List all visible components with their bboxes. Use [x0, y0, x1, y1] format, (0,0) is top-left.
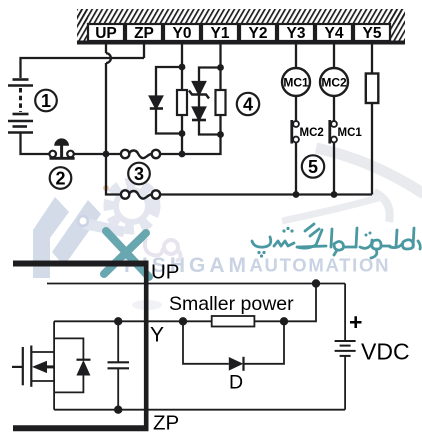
wire Y3 coil to contact [295, 96, 297, 121]
node Y0 row1 [179, 151, 186, 158]
circled number 5 [302, 155, 324, 177]
svg-text:Y5: Y5 [363, 25, 382, 42]
Y0 snubber left branch with diode [156, 67, 182, 97]
svg-text:Y1: Y1 [211, 25, 230, 42]
node Y-load left [179, 317, 187, 325]
wire Y1 column lower [219, 115, 221, 135]
watermark logo gear [109, 183, 155, 229]
terminal box ZP [126, 24, 162, 42]
svg-text:UP: UP [151, 261, 179, 284]
node ZP-cap [114, 406, 122, 414]
wire Y0 column [181, 44, 183, 90]
svg-text:ZP: ZP [153, 412, 179, 435]
contactor coil MC2 [320, 68, 348, 96]
terminal box Y2 [240, 24, 276, 42]
resistor on Y5 [366, 74, 379, 104]
diode D loop [183, 321, 229, 364]
interlock contact MC2 [292, 120, 299, 144]
terminal box Y0 [164, 24, 200, 42]
interlock contact MC1 [330, 120, 337, 144]
battery VDC [344, 284, 346, 341]
wire UP column lower [106, 63, 121, 195]
wire Y3 contact to bottom row [295, 142, 297, 194]
PLC case outline thick frame [13, 261, 149, 432]
svg-text:5: 5 [308, 157, 318, 177]
terminal box Y3 [278, 24, 314, 42]
terminal box Y1 [202, 24, 238, 42]
wire Y4 contact to bottom row [333, 142, 335, 194]
svg-text:UP: UP [95, 25, 117, 42]
wire UP rail [47, 283, 345, 285]
wire Y0 column lower [181, 115, 183, 154]
watermark teal X mark [104, 231, 149, 277]
svg-text:2: 2 [55, 169, 65, 189]
svg-text:+: + [349, 309, 362, 335]
node Y3 bottom row [293, 191, 300, 198]
battery 1 plates [8, 80, 33, 133]
node Y0 top [179, 64, 186, 71]
terminal box Y5 [354, 24, 390, 42]
svg-text:3: 3 [134, 164, 144, 184]
wire Y rail left [54, 320, 212, 322]
node junction UP-button [103, 151, 110, 158]
svg-text:Y2: Y2 [249, 25, 268, 42]
transistor Q1 mosfet [12, 346, 54, 387]
circled number 2 [50, 167, 72, 189]
fuse 3 row1 [121, 150, 160, 158]
capacitor C1 [117, 321, 119, 362]
zener diode on Y1 branch [193, 82, 205, 94]
svg-text:MC1: MC1 [283, 76, 309, 90]
watermark logo small circle [78, 216, 88, 226]
svg-text:ZP: ZP [134, 25, 154, 42]
wire Y4 coil to contact [333, 96, 335, 121]
diode on Y0 branch [150, 97, 162, 109]
wire hop over ZP-battery line [106, 53, 111, 63]
wire fuse1 to Y0 node [160, 153, 182, 155]
watermark faint large glyphs [145, 238, 181, 261]
wire bottom row [160, 193, 372, 195]
svg-text:Y4: Y4 [325, 25, 344, 42]
diode D [229, 357, 244, 371]
svg-text:MC2: MC2 [321, 76, 347, 90]
wire Y5 column lower [371, 103, 373, 195]
circled number 4 [237, 93, 259, 115]
wire ZP rail [54, 409, 345, 411]
wire Y3 column upper [295, 44, 297, 68]
contactor coil MC1 [282, 68, 310, 96]
node UP-load [312, 279, 320, 287]
Y1 snubber branch with zener+diode [199, 68, 221, 83]
svg-text:VDC: VDC [361, 339, 410, 365]
node Y0 bottom [179, 130, 186, 137]
terminal box UP [88, 24, 124, 42]
node Y1 top [217, 64, 224, 71]
transistor main bus [53, 321, 55, 409]
terminal strip bottom border [77, 41, 405, 45]
watermark persian text (approximated strokes) [252, 224, 420, 258]
terminal strip hatched bar [77, 9, 405, 25]
diode on Y1 branch [193, 108, 205, 120]
circled number 1 [35, 90, 57, 112]
svg-text:Y: Y [150, 324, 164, 347]
node Y1 bottom [217, 131, 224, 138]
pushbutton 2 [49, 138, 74, 158]
body diode branch [54, 338, 83, 359]
svg-text:D: D [229, 372, 243, 394]
wire Y1 column [219, 44, 221, 90]
node Y-load right [280, 317, 288, 325]
svg-text:4: 4 [243, 95, 253, 115]
wire UP column upper [105, 44, 107, 53]
terminal box Y4 [316, 24, 352, 42]
svg-text:Y3: Y3 [287, 25, 306, 42]
watermark logo wing shapes [33, 197, 69, 278]
wire ZP to battery top [21, 58, 145, 78]
node Y-cap [114, 317, 122, 325]
svg-text:Smaller power: Smaller power [169, 293, 294, 315]
wire button to UP junction [74, 153, 121, 155]
wire Y5 column upper [371, 44, 373, 74]
wire Y4 column upper [333, 44, 335, 68]
fuse 3 row2 [121, 190, 160, 198]
circled number 3 [128, 163, 150, 185]
svg-text:AUTOMATION: AUTOMATION [250, 255, 391, 276]
wire ZP column [143, 44, 145, 58]
svg-text:Y0: Y0 [173, 25, 192, 42]
resistor on Y1 [216, 90, 226, 115]
wire Y1 loop to row1 [182, 135, 221, 155]
node Y4 bottom row [331, 191, 338, 198]
wire battery bottom to button [21, 134, 50, 155]
svg-text:MC2: MC2 [300, 127, 324, 139]
watermark swoosh arcs [316, 148, 422, 194]
body diode [77, 359, 91, 361]
svg-text:MC1: MC1 [338, 127, 363, 139]
resistor smaller power [212, 316, 255, 327]
watermark orange accent [103, 185, 109, 191]
svg-text:1: 1 [41, 91, 51, 111]
wire Y rail right [254, 284, 316, 322]
resistor on Y0 [177, 90, 187, 115]
